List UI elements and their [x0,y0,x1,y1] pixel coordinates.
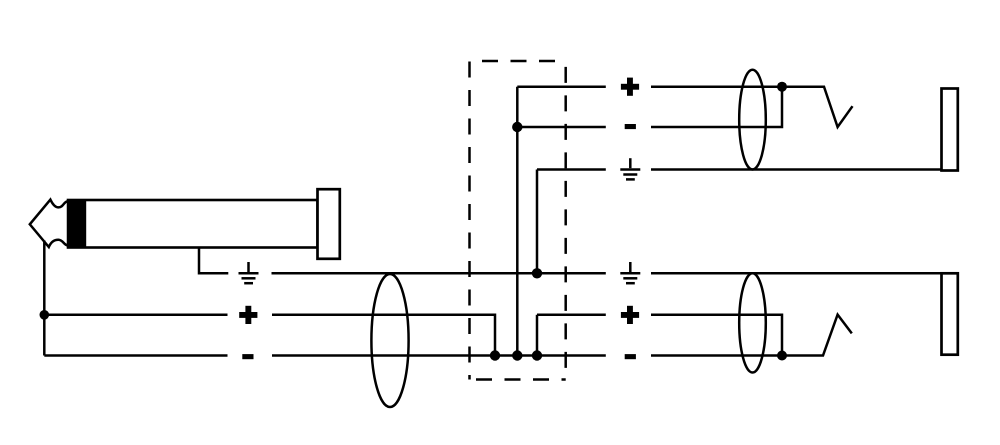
wire: left plus line from tip node [44,314,227,317]
minus label (upper right) [625,124,636,129]
wire: ground line after right ground label to jack J2 sleeve [651,272,942,275]
ground symbol G2 (upper right) [620,158,640,179]
shield ellipse E2 (upper right cable) [739,70,766,170]
shield ellipse E3 (lower right cable) [739,273,766,372]
wire: upper ground line after label to jack J1 sleeve [651,168,942,171]
wire: splice vertical tip bus (plus/minus tie) [516,87,519,356]
wire: upper minus line from splice node [517,126,606,129]
node: upper plus/minus junction [777,82,787,92]
plus label (lower right) [621,306,639,324]
plug P1 tip (arrow) [30,200,68,247]
wire: upper plus line after label to jack J1 tip spring [651,87,853,127]
node: ground tie on ground line [532,268,542,278]
wire: lower plus line after label, corner down to minus node [651,315,782,356]
jack J1 sleeve body (upper right) [942,89,958,171]
jack J2 sleeve body (lower right) [942,273,958,354]
wire: minus line after right minus label to jack J2 tip spring [651,315,852,356]
wire: minus line after left minus label [272,354,606,357]
wire: ground line from G1 to right ground label [272,272,606,275]
wire: left plus line after label, corner down to minus bus [272,315,495,356]
minus label (lower right) [625,354,636,359]
node: upper minus on tip bus [512,122,522,132]
wire: upper minus line after label, corner up to plus node [651,87,782,127]
ground symbol G1 (left) [239,262,259,283]
node: tip to plus junction (left) [40,310,50,320]
wire: splice vertical to lower plus [536,315,539,356]
wire: lower plus line from splice [537,314,606,317]
wire: left minus line (tip) across to right jack tip [44,354,227,357]
plug P1 collar [318,189,340,259]
node: left plus to minus bus [490,350,500,360]
wire: tip conductor down from plug tip to minus line [43,241,46,356]
wire: upper plus line from splice [517,85,606,88]
wire: sleeve drop from plug barrel to ground line [199,247,228,273]
plug P1 barrel (1/4" jack plug, left) [68,200,318,248]
wire: splice vertical ground tie [536,170,539,274]
shield ellipse E1 (left cable) [371,274,408,407]
node: lower plus/minus junction [777,351,787,361]
plug P1 insulator band (black) [67,199,86,248]
wire: upper ground line from splice [537,168,606,171]
plus label (left) [239,306,257,324]
solder-splice box (dashed) [470,61,566,380]
plus label (upper right) [621,78,639,96]
node: tip bus on minus line [512,350,522,360]
node: lower plus tie on minus line [532,350,542,360]
ground symbol G3 (lower right) [620,262,640,283]
minus label (left) [242,354,253,359]
